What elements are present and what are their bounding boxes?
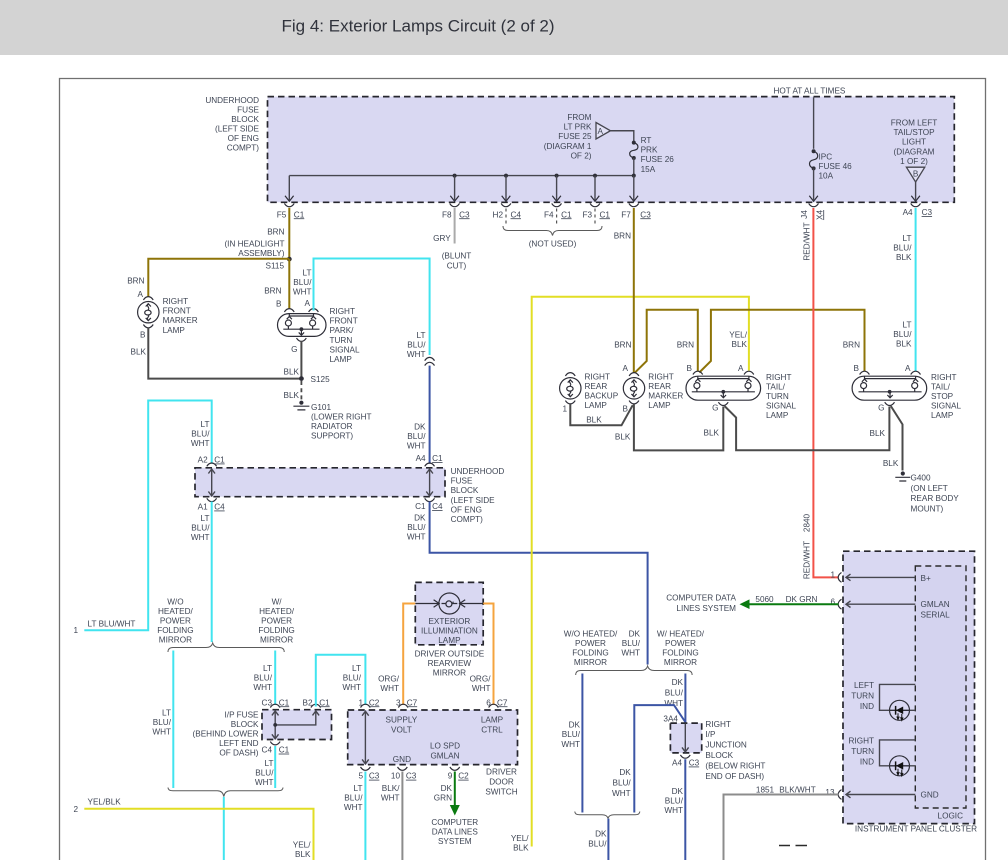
svg-text:C3: C3 bbox=[689, 759, 700, 768]
svg-text:OF ENG: OF ENG bbox=[451, 505, 482, 514]
svg-text:RIGHT: RIGHT bbox=[849, 737, 874, 746]
svg-text:C4: C4 bbox=[432, 502, 443, 511]
svg-text:BLK: BLK bbox=[295, 850, 311, 859]
cup at IPC pin 6 bbox=[838, 599, 841, 609]
svg-text:2: 2 bbox=[73, 805, 78, 814]
terminal cup top of backup lamp bbox=[565, 373, 575, 376]
svg-text:DK: DK bbox=[672, 678, 684, 687]
terminal cup G of park/turn lamp bbox=[297, 338, 307, 341]
svg-text:BRN: BRN bbox=[264, 286, 281, 295]
label DRIVER OUTSIDE REARVIEW MIRROR bbox=[415, 650, 485, 678]
svg-text:OF 2): OF 2) bbox=[571, 151, 592, 160]
svg-text:G: G bbox=[712, 404, 718, 413]
dashed stub F4 bbox=[556, 209, 558, 227]
cup at IPC pin 13 bbox=[838, 790, 841, 800]
label LT BLU/WHT bbox=[152, 709, 171, 737]
bus drop F8 bbox=[454, 176, 456, 200]
svg-text:C1: C1 bbox=[319, 698, 330, 707]
svg-text:COMPUTER: COMPUTER bbox=[431, 818, 478, 827]
ground G400 bbox=[895, 471, 910, 481]
wire LT BLU/WHT from C4 down to lower brace bbox=[274, 746, 276, 788]
terminal cup B of tail/turn bbox=[693, 371, 703, 374]
svg-text:(ON LEFT: (ON LEFT bbox=[911, 484, 948, 493]
wire LT BLU/WHT w/-heated branch to I/P fuse block bbox=[274, 651, 276, 706]
svg-text:WHT: WHT bbox=[293, 287, 312, 296]
svg-text:DK: DK bbox=[414, 514, 426, 523]
internal line B+ bbox=[846, 574, 915, 581]
svg-text:MARKER: MARKER bbox=[163, 316, 198, 325]
label ORG/WHT bbox=[470, 675, 492, 694]
lamp EXTERIOR ILLUMINATION LAMP bbox=[415, 593, 483, 614]
cup at C4 bottom of I/P fuse block bbox=[270, 742, 280, 745]
svg-text:WHT: WHT bbox=[664, 699, 683, 708]
wire BRN from S115 to park/turn lamp B bbox=[288, 259, 290, 308]
svg-text:S115: S115 bbox=[265, 261, 284, 270]
svg-text:FUSE: FUSE bbox=[451, 477, 473, 486]
wire BLK from marker lamp B to S125 bbox=[148, 328, 299, 379]
svg-text:(IN HEADLIGHT: (IN HEADLIGHT bbox=[224, 239, 284, 248]
svg-text:C3: C3 bbox=[640, 210, 651, 219]
svg-text:LT: LT bbox=[352, 664, 361, 673]
svg-text:W/O: W/O bbox=[167, 598, 183, 607]
svg-text:EXTERIOR: EXTERIOR bbox=[428, 617, 470, 626]
svg-text:(LEFT SIDE: (LEFT SIDE bbox=[451, 496, 496, 505]
label (IN HEADLIGHT ASSEMBLY) bbox=[224, 239, 284, 258]
svg-text:SIGNAL: SIGNAL bbox=[931, 402, 961, 411]
svg-text:F4: F4 bbox=[544, 210, 554, 219]
svg-text:W/ HEATED/: W/ HEATED/ bbox=[657, 629, 705, 638]
terminal cup A of marker lamp bbox=[143, 297, 153, 300]
svg-text:LT PRK: LT PRK bbox=[564, 123, 592, 132]
svg-text:5060: 5060 bbox=[755, 595, 774, 604]
wire IPC fuse to pin J4 bbox=[813, 168, 815, 200]
svg-text:LT: LT bbox=[201, 420, 210, 429]
svg-text:BRN: BRN bbox=[677, 341, 694, 350]
svg-text:F5: F5 bbox=[277, 210, 287, 219]
svg-text:DOOR: DOOR bbox=[489, 778, 514, 787]
svg-text:DK: DK bbox=[441, 784, 453, 793]
svg-text:BLOCK: BLOCK bbox=[451, 486, 479, 495]
terminal cup A of rear marker bbox=[629, 373, 639, 376]
svg-text:SERIAL: SERIAL bbox=[921, 611, 951, 620]
svg-text:GND: GND bbox=[921, 791, 939, 800]
svg-text:LOGIC: LOGIC bbox=[938, 811, 964, 820]
label FROM LT PRK FUSE 25 bbox=[544, 113, 592, 160]
svg-text:PRK: PRK bbox=[641, 146, 658, 155]
label LO SPD GMLAN bbox=[430, 742, 460, 761]
svg-text:A: A bbox=[738, 364, 744, 373]
svg-text:ILLUMINATION: ILLUMINATION bbox=[421, 626, 478, 635]
svg-text:BLK: BLK bbox=[883, 459, 899, 468]
svg-text:F7: F7 bbox=[621, 210, 631, 219]
svg-text:B: B bbox=[854, 364, 860, 373]
svg-text:IND: IND bbox=[860, 758, 874, 767]
svg-text:S125: S125 bbox=[311, 375, 331, 384]
brace splitting DK BLU/WHT bbox=[576, 666, 692, 675]
junction dots on bus bbox=[453, 174, 457, 178]
underhood fuse block box U1 bbox=[268, 97, 955, 203]
cup at mirror pin 10 bbox=[398, 767, 408, 770]
svg-text:2840: 2840 bbox=[803, 513, 812, 532]
pin labels A4 C3 bbox=[903, 208, 933, 217]
svg-text:WHT: WHT bbox=[152, 728, 171, 737]
bus drop F7 bbox=[633, 176, 635, 200]
wire YEL/BLK circuit 2 bbox=[84, 809, 313, 860]
internal line GMLAN SERIAL bbox=[846, 601, 915, 608]
wire ORG/WHT right of lamp bbox=[483, 604, 493, 706]
label RIGHT FRONT PARK/ TURN SIGNAL LAMP bbox=[330, 307, 360, 364]
svg-text:YEL/BLK: YEL/BLK bbox=[88, 798, 122, 807]
svg-text:LT: LT bbox=[162, 709, 171, 718]
pin labels A1 C4 bbox=[198, 503, 225, 512]
svg-text:LT: LT bbox=[263, 664, 272, 673]
brace splitting LT BLU/WHT bbox=[168, 643, 284, 652]
svg-text:(DIAGRAM 1: (DIAGRAM 1 bbox=[544, 142, 592, 151]
svg-text:FUSE 25: FUSE 25 bbox=[558, 132, 592, 141]
svg-text:BRN: BRN bbox=[127, 277, 144, 286]
svg-text:BLU/: BLU/ bbox=[255, 769, 274, 778]
svg-text:C1: C1 bbox=[294, 210, 305, 219]
svg-text:A: A bbox=[623, 364, 629, 373]
I/P fuse block box bbox=[262, 710, 332, 740]
svg-text:BLU/: BLU/ bbox=[893, 330, 912, 339]
internal line GND bbox=[846, 791, 915, 798]
svg-text:POWER: POWER bbox=[575, 639, 606, 648]
cup at mirror pin 9 bbox=[450, 767, 460, 770]
internal branch to B2 bbox=[275, 711, 319, 725]
terminal cup B of marker lamp bbox=[143, 325, 153, 328]
pin labels 10 C3 bbox=[391, 772, 417, 781]
svg-text:C1: C1 bbox=[279, 746, 290, 755]
svg-text:B: B bbox=[913, 170, 919, 179]
svg-text:WHT: WHT bbox=[407, 533, 426, 542]
terminal cup A of tail/turn bbox=[744, 371, 754, 374]
label DK BLU/WHT bbox=[561, 721, 580, 749]
svg-text:COMPT): COMPT) bbox=[451, 515, 484, 524]
terminal cup B of tail/stop bbox=[860, 371, 870, 374]
svg-text:DK: DK bbox=[619, 768, 631, 777]
svg-text:C1: C1 bbox=[214, 456, 225, 465]
svg-text:LT: LT bbox=[417, 331, 426, 340]
lower brace rejoining DK BLU/WHT bbox=[575, 812, 640, 819]
svg-text:1: 1 bbox=[73, 626, 78, 635]
internal pass-through A4-C1 bbox=[426, 469, 433, 496]
bus line inside fuse block bbox=[289, 175, 634, 177]
label LAMP CTRL bbox=[481, 716, 504, 735]
label DK BLU/WHT below C1 bbox=[407, 514, 426, 542]
svg-text:H2: H2 bbox=[493, 210, 504, 219]
label RIGHT REAR MARKER LAMP bbox=[648, 373, 683, 411]
svg-text:1: 1 bbox=[358, 698, 363, 707]
right I/P junction block box bbox=[670, 723, 701, 753]
svg-text:JUNCTION: JUNCTION bbox=[705, 741, 746, 750]
label (BLUNT CUT) bbox=[442, 252, 472, 271]
terminal cup A of park/turn lamp bbox=[309, 309, 319, 312]
svg-text:COMPT): COMPT) bbox=[227, 144, 260, 153]
svg-text:DATA LINES: DATA LINES bbox=[432, 828, 479, 837]
svg-text:POWER: POWER bbox=[261, 617, 292, 626]
svg-text:I/P: I/P bbox=[705, 730, 716, 739]
svg-text:LINES SYSTEM: LINES SYSTEM bbox=[676, 604, 736, 613]
svg-text:BLK: BLK bbox=[513, 844, 529, 853]
svg-text:SIGNAL: SIGNAL bbox=[330, 345, 360, 354]
svg-text:STOP: STOP bbox=[931, 392, 954, 401]
svg-text:G: G bbox=[291, 345, 297, 354]
svg-text:RIGHT: RIGHT bbox=[648, 373, 673, 382]
svg-text:DK: DK bbox=[672, 787, 684, 796]
label I/P FUSE BLOCK (BEHIND LOWER LEFT END OF DASH) bbox=[193, 710, 259, 757]
svg-text:3: 3 bbox=[396, 698, 401, 707]
cup at A2 bbox=[207, 463, 217, 466]
svg-text:B: B bbox=[276, 300, 282, 309]
svg-text:BLU/: BLU/ bbox=[665, 689, 684, 698]
wire BLK rear marker B down to ground bus bbox=[634, 404, 723, 450]
wire LT BLU/WHT from pin 5 down bbox=[364, 772, 366, 860]
svg-text:WHT: WHT bbox=[407, 350, 426, 359]
label RIGHT TURN IND bbox=[849, 737, 875, 767]
svg-text:1 OF 2): 1 OF 2) bbox=[900, 157, 928, 166]
svg-text:WHT: WHT bbox=[664, 806, 683, 815]
bus drop F5 bbox=[288, 176, 290, 200]
svg-text:C4: C4 bbox=[511, 210, 522, 219]
label LT BLU/WHT bbox=[342, 664, 361, 692]
internal pass-through pin1-pin5 bbox=[362, 711, 369, 764]
svg-text:C3: C3 bbox=[369, 772, 380, 781]
label RIGHT TAIL/ TURN SIGNAL LAMP bbox=[766, 373, 796, 420]
label DK BLU/WHT bbox=[612, 768, 631, 798]
svg-text:FOLDING: FOLDING bbox=[572, 649, 608, 658]
svg-text:A4: A4 bbox=[903, 208, 913, 217]
svg-text:SUPPORT): SUPPORT) bbox=[311, 432, 353, 441]
underhood fuse block 2 box bbox=[195, 468, 445, 497]
label LT BLU/WHT below A1 bbox=[191, 514, 210, 542]
svg-text:LAMP: LAMP bbox=[330, 355, 353, 364]
label RIGHT I/P JUNCTION BLOCK (BELOW RIGHT END OF DASH) bbox=[705, 720, 765, 781]
svg-text:BLU/: BLU/ bbox=[191, 524, 210, 533]
svg-text:FUSE 26: FUSE 26 bbox=[641, 155, 675, 164]
svg-text:BLK: BLK bbox=[615, 433, 631, 442]
svg-text:HOT AT ALL TIMES: HOT AT ALL TIMES bbox=[774, 87, 846, 96]
svg-text:B2: B2 bbox=[302, 699, 312, 708]
svg-text:15A: 15A bbox=[641, 165, 656, 174]
svg-text:FRONT: FRONT bbox=[330, 317, 358, 326]
svg-text:LAMP: LAMP bbox=[438, 636, 461, 645]
svg-text:YEL/: YEL/ bbox=[293, 841, 311, 850]
svg-text:CUT): CUT) bbox=[447, 261, 467, 270]
pin labels A4 C1 bbox=[416, 454, 443, 463]
svg-text:F3: F3 bbox=[582, 210, 592, 219]
wire BLK/WHT 1851 to IPC GND bbox=[724, 795, 839, 860]
svg-text:DK: DK bbox=[629, 629, 641, 638]
svg-text:B: B bbox=[623, 405, 629, 414]
svg-text:BLK: BLK bbox=[284, 368, 300, 377]
lamp RIGHT TAIL/STOP SIGNAL LAMP bbox=[852, 376, 927, 400]
svg-text:RIGHT: RIGHT bbox=[766, 373, 791, 382]
junction dot in park/turn lamp bbox=[300, 327, 304, 331]
svg-text:A: A bbox=[138, 290, 144, 299]
svg-text:C4: C4 bbox=[262, 746, 273, 755]
wire YEL/BLK from tail/turn A, long run bbox=[532, 297, 749, 847]
internal pass-through A2-A1 bbox=[208, 469, 215, 496]
node S125 bbox=[299, 376, 304, 381]
label SUPPLY VOLT bbox=[386, 716, 418, 735]
cup at B2 of I/P fuse block bbox=[311, 704, 321, 707]
cup at mirror pin 1 bbox=[361, 704, 371, 707]
label DK BLU/WHT bbox=[664, 678, 683, 708]
label W/ HEATED/ POWER FOLDING MIRROR (right group) bbox=[657, 629, 705, 667]
pin labels F7 C3 bbox=[621, 210, 651, 219]
svg-text:W/O HEATED/: W/O HEATED/ bbox=[564, 629, 618, 638]
svg-text:W/: W/ bbox=[272, 598, 283, 607]
svg-text:BLU/: BLU/ bbox=[407, 523, 426, 532]
svg-text:PARK/: PARK/ bbox=[330, 326, 355, 335]
svg-text:DK GRN: DK GRN bbox=[786, 595, 818, 604]
wire BRN from F7 to rear marker lamp A bbox=[633, 208, 635, 373]
dashed stub H2 bbox=[505, 209, 507, 227]
ground G101 bbox=[293, 401, 309, 410]
pin labels 6 C7 bbox=[486, 698, 508, 707]
wire BLK tail/stop G to G400 bbox=[891, 406, 903, 471]
pin labels F8 C3 bbox=[442, 210, 470, 219]
svg-text:B: B bbox=[140, 331, 146, 340]
svg-text:MIRROR: MIRROR bbox=[574, 658, 607, 667]
svg-text:LT: LT bbox=[201, 514, 210, 523]
svg-text:REAR: REAR bbox=[648, 382, 671, 391]
lamp RIGHT REAR MARKER LAMP bbox=[623, 378, 644, 399]
svg-text:WHT: WHT bbox=[380, 684, 399, 693]
triangle connector B bbox=[906, 167, 924, 182]
svg-text:FOLDING: FOLDING bbox=[157, 626, 193, 635]
svg-text:1851: 1851 bbox=[756, 786, 775, 795]
svg-text:WHT: WHT bbox=[344, 803, 363, 812]
svg-text:B+: B+ bbox=[921, 574, 931, 583]
svg-text:LAMP: LAMP bbox=[648, 401, 671, 410]
svg-text:BLU/: BLU/ bbox=[562, 730, 581, 739]
svg-text:LAMP: LAMP bbox=[766, 411, 789, 420]
svg-text:(LEFT SIDE: (LEFT SIDE bbox=[215, 125, 260, 134]
svg-text:LT: LT bbox=[354, 784, 363, 793]
wire GRY from F8 bbox=[454, 208, 456, 244]
triangle connector A bbox=[596, 123, 611, 140]
svg-text:BLK: BLK bbox=[732, 340, 748, 349]
svg-text:(BLUNT: (BLUNT bbox=[442, 252, 472, 261]
svg-text:UNDERHOOD: UNDERHOOD bbox=[451, 467, 505, 476]
svg-text:C7: C7 bbox=[407, 698, 418, 707]
svg-text:RT: RT bbox=[641, 136, 652, 145]
svg-text:UNDERHOOD: UNDERHOOD bbox=[205, 96, 259, 105]
label YEL/ BLK at bottom bbox=[293, 841, 311, 860]
pin labels 1 C2 bbox=[358, 698, 379, 707]
lamp RIGHT REAR BACKUP LAMP bbox=[560, 378, 581, 399]
svg-text:ORG/: ORG/ bbox=[470, 675, 492, 684]
label LT BLU/WHT bbox=[407, 331, 426, 359]
wire BRN rear marker A to tail/turn B bbox=[635, 310, 698, 373]
svg-text:IPC: IPC bbox=[819, 152, 833, 161]
svg-text:BLK: BLK bbox=[586, 416, 602, 425]
svg-text:FUSE 46: FUSE 46 bbox=[819, 162, 853, 171]
terminal cup B of park/turn lamp bbox=[284, 309, 294, 312]
svg-text:LAMP: LAMP bbox=[163, 326, 186, 335]
pin labels C3 C1 bbox=[262, 698, 290, 707]
internal arrow of junction block bbox=[682, 724, 689, 752]
wire DK BLU/WHT down to fuse block 2 bbox=[429, 366, 431, 464]
svg-text:HEATED/: HEATED/ bbox=[259, 607, 295, 616]
wire DK BLU/WHT below junction block bbox=[684, 759, 686, 860]
internal pass-through C3-C4 bbox=[272, 711, 279, 739]
left turn indicator hook bbox=[880, 684, 916, 710]
svg-text:MIRROR: MIRROR bbox=[664, 658, 697, 667]
svg-text:(BELOW RIGHT: (BELOW RIGHT bbox=[705, 761, 765, 770]
svg-text:C1: C1 bbox=[600, 210, 611, 219]
svg-text:BLK: BLK bbox=[284, 391, 300, 400]
wire from triangle A to fuse 26 bbox=[611, 131, 634, 141]
svg-text:LIGHT: LIGHT bbox=[902, 138, 926, 147]
svg-text:F8: F8 bbox=[442, 210, 452, 219]
wire triangle B to pin A4 bbox=[915, 182, 917, 200]
cup at A1 bottom bbox=[207, 498, 217, 501]
cup at C1 bottom bbox=[425, 498, 435, 501]
svg-text:9: 9 bbox=[448, 772, 453, 781]
svg-text:TURN: TURN bbox=[851, 747, 874, 756]
LED right turn indicator bbox=[890, 756, 910, 776]
svg-text:WHT: WHT bbox=[342, 683, 361, 692]
svg-text:SWITCH: SWITCH bbox=[485, 788, 517, 797]
svg-text:HEATED/: HEATED/ bbox=[158, 607, 194, 616]
svg-text:10: 10 bbox=[391, 772, 401, 781]
svg-text:LT: LT bbox=[903, 321, 912, 330]
svg-text:BRN: BRN bbox=[843, 341, 860, 350]
label DK BLU/WHT (center feed) bbox=[621, 629, 640, 657]
pin labels 9 C2 bbox=[448, 772, 469, 781]
svg-text:LT: LT bbox=[903, 234, 912, 243]
svg-text:1: 1 bbox=[830, 571, 835, 580]
svg-text:C2: C2 bbox=[369, 698, 380, 707]
svg-text:BLU/: BLU/ bbox=[293, 278, 312, 287]
pin labels 3 C7 bbox=[396, 698, 418, 707]
inline connector on mirror feed wire bbox=[425, 357, 435, 365]
svg-text:WHT: WHT bbox=[191, 439, 210, 448]
label LT BLU/WHT bbox=[253, 664, 272, 692]
pin labels 5 C3 bbox=[358, 772, 379, 781]
svg-text:RIGHT: RIGHT bbox=[330, 307, 355, 316]
svg-text:YEL/: YEL/ bbox=[511, 834, 529, 843]
svg-text:WHT: WHT bbox=[472, 684, 491, 693]
label YEL/BLK bottom bbox=[511, 834, 529, 853]
bus drop F4 bbox=[556, 176, 558, 200]
label DK BLU/WHT bbox=[407, 423, 426, 451]
svg-text:WHT: WHT bbox=[561, 740, 580, 749]
svg-text:G400: G400 bbox=[911, 474, 931, 483]
svg-text:END OF DASH): END OF DASH) bbox=[705, 772, 764, 781]
terminal cup G of tail/stop bbox=[885, 402, 895, 405]
svg-text:DK: DK bbox=[569, 721, 581, 730]
svg-text:BLU/: BLU/ bbox=[254, 674, 273, 683]
label G400 (ON LEFT REAR BODY MOUNT) bbox=[911, 474, 960, 514]
lamp RIGHT TAIL/TURN SIGNAL LAMP bbox=[686, 376, 761, 400]
svg-text:POWER: POWER bbox=[160, 617, 191, 626]
svg-text:10A: 10A bbox=[819, 172, 834, 181]
svg-text:BLU/: BLU/ bbox=[407, 341, 426, 350]
label LT BLU/WHT (above A2) bbox=[191, 420, 210, 448]
wire DK BLU/WHT continuing below brace bbox=[607, 819, 609, 860]
svg-text:WHT: WHT bbox=[253, 683, 272, 692]
svg-text:LT BLU/WHT: LT BLU/WHT bbox=[88, 620, 136, 629]
svg-text:I/P FUSE: I/P FUSE bbox=[225, 710, 260, 719]
pin labels C4 C1 bbox=[262, 746, 290, 755]
svg-text:(DIAGRAM: (DIAGRAM bbox=[894, 147, 935, 156]
right turn indicator hook bbox=[880, 740, 916, 766]
svg-text:BLK: BLK bbox=[870, 429, 886, 438]
